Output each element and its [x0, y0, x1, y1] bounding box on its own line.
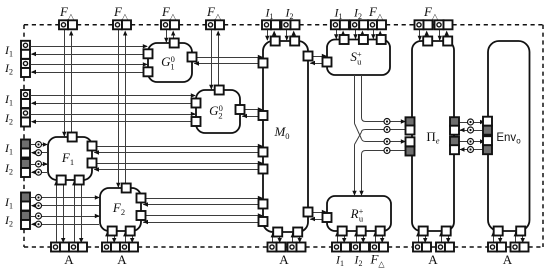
left boundary port pair at y=118	[21, 109, 30, 127]
box bottom port above x=341	[338, 227, 347, 236]
label M0	[273, 124, 289, 141]
wire pair from box bottom to bottom boundary port at x=497	[491, 231, 502, 243]
wire pair from top boundary port at x=444 down to box	[438, 29, 449, 41]
Pi_e right port stack 2	[450, 137, 459, 155]
label I_2 at top x=358	[353, 6, 362, 22]
bottom boundary port at x=445	[436, 243, 454, 252]
bottom boundary port at x=422	[413, 243, 431, 252]
box bottom port above x=520	[516, 227, 525, 236]
svg-text:F△: F△	[369, 252, 385, 269]
left boundary port pair at y=148	[21, 140, 30, 158]
F2 right port 1 square	[137, 194, 146, 203]
top boundary port (I2) at x=359	[350, 20, 368, 29]
cable from Su+ bottom (right) to Pi_e left port 1 with copy node	[362, 75, 406, 125]
dashed outer boundary, right edge	[542, 25, 544, 247]
M0 right port 2 square	[304, 208, 313, 217]
svg-text:I2: I2	[285, 6, 294, 22]
wire pair from top boundary port at x=340 down to box	[334, 29, 345, 39]
svg-text:A: A	[117, 252, 127, 267]
wire pair from box bottom to bottom boundary port at x=111	[105, 231, 116, 243]
wire pair from top boundary port at x=377 down to box	[371, 29, 382, 39]
G1 left port 2 square	[144, 67, 153, 76]
svg-text:F△: F△	[423, 4, 439, 21]
left boundary port pair at y=220	[21, 211, 30, 229]
label A at bottom x=69	[64, 252, 74, 267]
label Ru+	[350, 206, 364, 224]
box top port under x=122	[122, 184, 131, 193]
G2 left port 1 square	[192, 99, 201, 108]
svg-text:I1: I1	[265, 6, 274, 22]
bottom boundary port at x=111	[102, 243, 120, 252]
left boundary port pair at y=202	[21, 193, 30, 211]
svg-text:G02: G02	[209, 103, 223, 121]
label A at bottom x=284	[279, 252, 289, 267]
M0 left port 6 square	[259, 217, 268, 226]
svg-text:F△: F△	[161, 4, 177, 21]
label Pi_e	[426, 129, 439, 146]
left boundary port pair at y=99	[21, 90, 30, 108]
bottom boundary port at x=129	[120, 243, 138, 252]
wire pair from box bottom to bottom boundary port at x=341	[335, 231, 346, 243]
label I_2 on left boundary at y=168	[4, 161, 13, 177]
system box Env_o	[488, 41, 530, 231]
M0 left port 4 square	[259, 165, 268, 174]
label F1	[61, 150, 74, 167]
functor box F2	[100, 188, 141, 231]
label I_1 at top x=269.5	[265, 6, 274, 22]
label I_1 on left boundary at y=50	[4, 43, 13, 59]
wire pair from box bottom to bottom boundary port at x=296	[291, 232, 302, 243]
wires from left boundary to G1 left port 2	[31, 62, 148, 74]
label F_triangle above x=68	[59, 4, 75, 21]
svg-text:I1: I1	[4, 141, 13, 157]
wire pair from box bottom to bottom boundary port at x=422	[416, 231, 427, 243]
label F_triangle above x=122	[113, 4, 129, 21]
G2 left port 2 square	[192, 117, 201, 126]
svg-text:I1: I1	[334, 6, 343, 22]
box top port under x=68	[68, 133, 77, 142]
bottom boundary port at x=78	[69, 243, 87, 252]
bottom boundary port at x=379	[370, 243, 388, 252]
M0 left port 2 square	[259, 111, 268, 120]
bottom boundary port at x=341	[332, 243, 350, 252]
functor box G2	[196, 90, 240, 133]
svg-text:I2: I2	[4, 161, 13, 177]
Ru+ left port square	[323, 213, 332, 222]
svg-text:I2: I2	[4, 213, 13, 229]
box top port under x=170	[170, 39, 179, 48]
svg-text:I1: I1	[4, 43, 13, 59]
bottom boundary port at x=497	[488, 243, 506, 252]
label F_triangle above x=377	[368, 4, 384, 21]
cable from Su+ bottom (left) crossing to Pi_e left port 3 with copy node	[355, 75, 406, 145]
label A at bottom x=433	[428, 252, 438, 267]
label I_2 on left boundary at y=220	[4, 213, 13, 229]
box top port under x=271	[271, 37, 280, 46]
wire pair from box bottom to bottom boundary port at x=60	[54, 180, 65, 243]
bottom boundary port at x=520	[511, 243, 529, 252]
box top port under x=340	[340, 35, 349, 44]
svg-text:I1: I1	[335, 253, 344, 269]
wires F2 right port 1 to M0 left port 5	[141, 196, 263, 207]
wires F1 right port 2 to M0 left port 4	[92, 161, 263, 172]
Env_o left port stack 2	[483, 136, 492, 154]
top boundary port (I1) at x=271	[262, 20, 280, 29]
svg-text:F△: F△	[113, 4, 129, 21]
wires M0 right port 2 to Ru+ left port	[308, 210, 327, 221]
M0 left port 3 square	[259, 148, 268, 157]
wires M0 right port 1 to Su+ left port	[308, 54, 327, 65]
label F2	[112, 200, 125, 217]
wire pair from top boundary port at x=215 down to box	[209, 29, 220, 90]
dashed outer boundary, bottom edge	[24, 246, 543, 248]
label Env_o	[496, 132, 521, 146]
svg-text:R+u: R+u	[350, 206, 364, 224]
box bottom port above x=360	[357, 227, 366, 236]
bottom boundary port at x=276	[268, 243, 286, 252]
svg-text:G01: G01	[161, 54, 175, 72]
label I_2 on left boundary at y=68	[4, 61, 13, 77]
system box Ru+	[327, 196, 391, 231]
svg-text:A: A	[428, 252, 438, 267]
coupling wires with copy nodes between Pi_e and Env_o	[459, 119, 485, 153]
label F_triangle above Pi_e	[423, 4, 439, 21]
label I_2 on left boundary at y=118	[4, 111, 13, 127]
label G2	[209, 103, 223, 121]
top boundary port (F) at x=122	[113, 20, 131, 29]
svg-text:I2: I2	[4, 61, 13, 77]
box top port under x=424	[423, 37, 432, 46]
label A at bottom x=122	[117, 252, 127, 267]
G1 right port square	[188, 53, 197, 62]
label I_2 at top x=289.5	[285, 6, 294, 22]
top boundary port (I2) at x=290	[282, 20, 300, 29]
bottom boundary port at x=360	[351, 243, 369, 252]
wires from left boundary to G2 left port 2	[31, 112, 196, 124]
wire pair from box bottom to bottom boundary port at x=129	[123, 231, 134, 243]
top boundary port (F) at x=170	[161, 20, 179, 29]
label I_1 at bottom x=340	[335, 253, 344, 269]
left boundary port pair at y=68	[21, 59, 30, 77]
functor box F1	[48, 137, 92, 180]
wire pair from top boundary port at x=290 down to box	[285, 29, 296, 41]
label A at bottom x=507.5	[503, 252, 513, 267]
functor box G1	[148, 43, 192, 82]
M0 left port 5 square	[259, 200, 268, 209]
bottom boundary port at x=296	[288, 243, 306, 252]
svg-text:A: A	[64, 252, 74, 267]
wire pair from box bottom to bottom boundary port at x=520	[514, 231, 525, 243]
wire pair from box bottom to bottom boundary port at x=276	[271, 232, 282, 243]
copy nodes and wires from left boundary y=202 to box edge	[31, 195, 100, 209]
wire pair from top boundary port at x=359 down to box	[353, 29, 364, 39]
wire pair from box bottom to bottom boundary port at x=360	[354, 231, 365, 243]
F2 right port 2 square	[137, 211, 146, 220]
Pi_e left port stack 2	[406, 137, 415, 155]
top boundary port (F2b) at x=444	[435, 20, 453, 29]
system box M0	[263, 41, 308, 232]
box top port under x=377	[377, 35, 386, 44]
copy nodes and wires from left boundary y=220 to box edge	[31, 213, 100, 227]
wires G1 right port to M0 left port 1	[192, 55, 263, 66]
box top port under x=215	[215, 86, 224, 95]
box top port under x=444	[443, 37, 452, 46]
top boundary port (F) at x=215	[206, 20, 224, 29]
svg-text:A: A	[279, 252, 289, 267]
box bottom port above x=111	[108, 227, 117, 236]
G1 left port 1 square	[144, 49, 153, 58]
return cable from Pi_e left port 2 crossing down into Ru+ top	[352, 127, 411, 196]
label I_1 on left boundary at y=148	[4, 141, 13, 157]
F1 right port 2 square	[88, 159, 97, 168]
wire pair from top boundary port at x=424 down to box	[418, 29, 429, 41]
box bottom port above x=129	[126, 227, 135, 236]
box bottom port above x=60	[57, 176, 66, 185]
svg-text:I2: I2	[353, 6, 362, 22]
copy nodes and wires from left boundary y=168 to box edge	[31, 161, 48, 175]
Su+ left port square	[323, 58, 332, 67]
svg-text:I1: I1	[4, 92, 13, 108]
G2 right port square	[236, 105, 245, 114]
wire pair from box bottom to bottom boundary port at x=379	[373, 231, 384, 243]
wires from left boundary to G1 left port 1	[31, 44, 148, 56]
label G1	[161, 54, 175, 72]
wire pair from top boundary port at x=170 down to box	[164, 29, 175, 43]
box bottom port above x=296	[293, 228, 302, 237]
wires F2 right port 2 to M0 left port 6	[141, 213, 263, 224]
copy nodes and wires from left boundary y=148 to box edge	[31, 142, 48, 156]
svg-text:I2: I2	[4, 111, 13, 127]
svg-text:F△: F△	[368, 4, 384, 21]
label I_1 on left boundary at y=202	[4, 195, 13, 211]
svg-text:A: A	[503, 252, 513, 267]
svg-text:F△: F△	[59, 4, 75, 21]
top boundary port (F) at x=377	[368, 20, 386, 29]
wire pair from top boundary port at x=122 down to box	[116, 29, 127, 188]
Pi_e right port stack 1	[450, 117, 459, 135]
svg-text:S+u: S+u	[350, 49, 362, 67]
label F_triangle above x=170	[161, 4, 177, 21]
svg-text:I1: I1	[4, 195, 13, 211]
box bottom port above x=445	[442, 227, 451, 236]
box bottom port above x=379	[376, 227, 385, 236]
box bottom port above x=78	[75, 176, 84, 185]
wires G2 right port to M0 left port 2	[240, 107, 263, 118]
bottom boundary port at x=60	[51, 243, 69, 252]
F1 right port 1 square	[88, 142, 97, 151]
system box Pi_e	[412, 41, 454, 231]
label F_triangle at bottom	[369, 252, 385, 269]
label F_triangle above x=215	[206, 4, 222, 21]
M0 left port 1 square	[259, 59, 268, 68]
wires F1 right port 1 to M0 left port 3	[92, 144, 263, 155]
top boundary port (F) at x=68	[59, 20, 77, 29]
label I_2 at bottom x=358.5	[354, 253, 363, 269]
return cable from Pi_e left port 4 down into Ru+ top	[359, 148, 411, 196]
left boundary port pair at y=168	[21, 159, 30, 177]
box bottom port above x=276	[273, 228, 282, 237]
box top port under x=359	[359, 35, 368, 44]
box bottom port above x=497	[494, 227, 503, 236]
wires from left boundary to G2 left port 1	[31, 93, 196, 105]
dashed outer boundary, top edge	[24, 24, 543, 26]
left boundary port pair at y=50	[21, 41, 30, 59]
svg-text:F△: F△	[206, 4, 222, 21]
Pi_e left port stack 1	[406, 117, 415, 134]
dashed outer boundary, left edge	[23, 25, 25, 247]
label Su+	[350, 49, 362, 67]
label I_1 on left boundary at y=99	[4, 92, 13, 108]
svg-text:I2: I2	[354, 253, 363, 269]
wire pair from top boundary port at x=271 down to box	[265, 29, 276, 41]
label I_1 at top x=338.5	[334, 6, 343, 22]
system box Su+	[327, 40, 390, 76]
wire pair from box bottom to bottom boundary port at x=445	[439, 231, 450, 243]
wire pair from box bottom to bottom boundary port at x=78	[72, 180, 83, 243]
top boundary port (I1) at x=340	[331, 20, 349, 29]
wire pair from top boundary port at x=68 down to box	[62, 29, 73, 137]
M0 right port 1 square	[304, 52, 313, 61]
Env_o left port stack 1	[483, 117, 492, 135]
box top port under x=290	[290, 37, 299, 46]
box bottom port above x=422	[419, 227, 428, 236]
top boundary port (F2a) at x=424	[415, 20, 433, 29]
